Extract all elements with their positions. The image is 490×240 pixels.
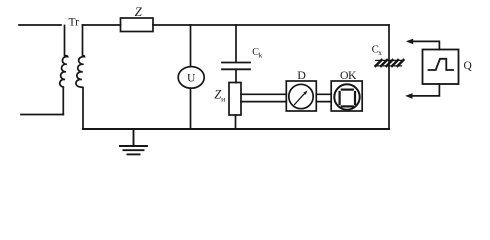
wire voltmeter branch lower: [190, 88, 192, 129]
generator Q pulse symbol: [429, 59, 454, 70]
wire bottom bus: [83, 128, 389, 130]
wire double link D to OK upper: [316, 93, 331, 95]
svg-text:Zи: Zи: [214, 87, 225, 103]
capacitor Ck plates: [222, 63, 250, 70]
oscilloscope OK box: [331, 81, 362, 111]
impedance Zi box: [229, 83, 241, 116]
svg-text:Tr: Tr: [69, 17, 80, 29]
ground: [120, 129, 147, 154]
wire double link D to OK lower: [316, 101, 331, 103]
wire Q lower lead: [412, 84, 439, 96]
oscilloscope OK crt screen square: [340, 90, 355, 107]
wire right bus: [388, 25, 390, 129]
detector D meter circle: [289, 84, 313, 108]
arrow upper pointing left: [406, 39, 413, 45]
wire capacitor Ck branch upper: [235, 25, 237, 62]
wire double link Zi to D lower: [241, 101, 286, 103]
wire bottom-left supply lead: [21, 114, 63, 116]
resistor Z box: [121, 18, 154, 32]
svg-text:Z: Z: [135, 4, 143, 19]
generator Q box: [423, 50, 459, 85]
wire top-left supply lead: [19, 24, 61, 26]
arrow lower pointing left: [405, 93, 412, 99]
test object Cx hatched electrode: [375, 60, 403, 66]
svg-text:Ck: Ck: [252, 47, 262, 60]
wire Zi box to bottom bus: [235, 115, 237, 129]
wire capacitor to Zi box: [235, 69, 237, 82]
voltmeter U circle: [178, 67, 204, 89]
svg-text:U: U: [187, 73, 196, 85]
svg-text:D: D: [297, 68, 306, 82]
svg-text:Cx: Cx: [372, 44, 383, 58]
detector D needle: [295, 90, 308, 104]
transformer Tr secondary winding: [76, 25, 85, 129]
svg-text:Q: Q: [464, 60, 473, 72]
wire top bus left segment: [83, 24, 121, 26]
detector D box: [286, 81, 316, 111]
oscilloscope OK crt circle: [334, 84, 359, 109]
wire top bus right segment: [153, 24, 389, 26]
wire Q upper lead: [412, 41, 439, 49]
transformer Tr primary winding: [60, 26, 68, 115]
svg-text:OK: OK: [340, 68, 357, 82]
wire voltmeter branch upper: [190, 25, 192, 67]
wire double link Zi to D upper: [241, 93, 286, 95]
